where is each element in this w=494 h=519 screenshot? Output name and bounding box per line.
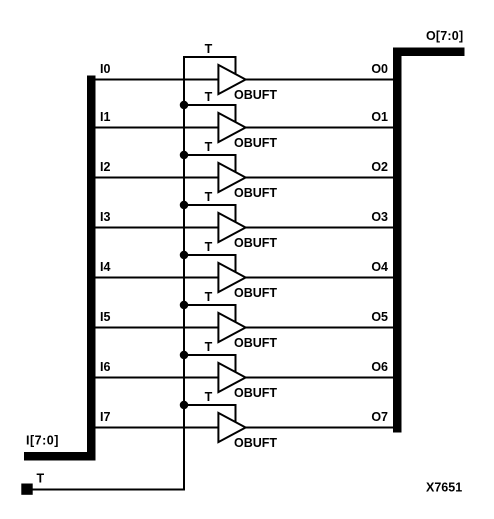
svg-text:I0: I0	[100, 62, 110, 76]
svg-text:T: T	[205, 140, 213, 154]
svg-text:T: T	[205, 290, 213, 304]
svg-text:OBUFT: OBUFT	[234, 136, 277, 150]
svg-text:T: T	[205, 240, 213, 254]
svg-text:T: T	[205, 390, 213, 404]
svg-text:O0: O0	[371, 62, 388, 76]
svg-text:I7: I7	[100, 410, 110, 424]
svg-text:O6: O6	[371, 360, 388, 374]
svg-text:O4: O4	[371, 260, 388, 274]
svg-text:OBUFT: OBUFT	[234, 286, 277, 300]
svg-text:T: T	[205, 42, 213, 56]
svg-text:X7651: X7651	[426, 481, 462, 495]
svg-text:I3: I3	[100, 210, 110, 224]
svg-text:I4: I4	[100, 260, 110, 274]
svg-text:I6: I6	[100, 360, 110, 374]
svg-text:T: T	[205, 90, 213, 104]
svg-text:O1: O1	[371, 110, 388, 124]
svg-text:OBUFT: OBUFT	[234, 186, 277, 200]
svg-text:I[7:0]: I[7:0]	[26, 434, 59, 448]
svg-text:O2: O2	[371, 160, 388, 174]
svg-text:O7: O7	[371, 410, 388, 424]
svg-text:O3: O3	[371, 210, 388, 224]
svg-text:T: T	[37, 471, 45, 485]
svg-text:I1: I1	[100, 110, 110, 124]
svg-text:OBUFT: OBUFT	[234, 436, 277, 450]
svg-text:OBUFT: OBUFT	[234, 336, 277, 350]
svg-text:I5: I5	[100, 310, 110, 324]
svg-text:OBUFT: OBUFT	[234, 236, 277, 250]
svg-text:OBUFT: OBUFT	[234, 386, 277, 400]
svg-text:T: T	[205, 340, 213, 354]
svg-text:O5: O5	[371, 310, 388, 324]
svg-text:OBUFT: OBUFT	[234, 88, 277, 102]
svg-text:T: T	[205, 190, 213, 204]
svg-text:I2: I2	[100, 160, 110, 174]
svg-text:O[7:0]: O[7:0]	[426, 29, 463, 43]
